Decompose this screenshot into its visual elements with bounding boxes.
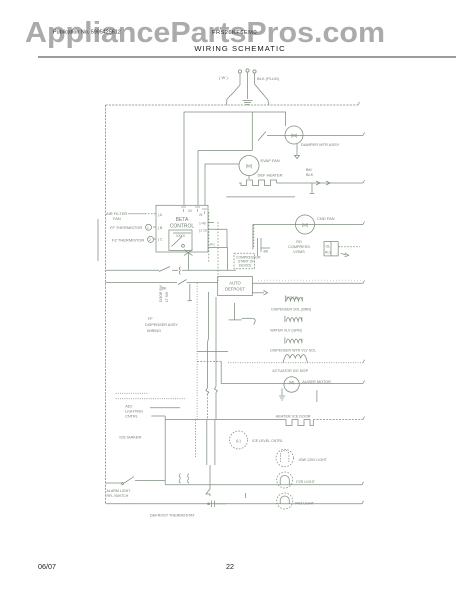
box overload relay OL xyxy=(324,242,338,256)
label beta control xyxy=(170,217,195,230)
wire heater line right xyxy=(277,182,364,184)
wire beta pin right y229 xyxy=(199,229,227,233)
label air filter fan xyxy=(106,211,145,221)
wire rail y282 xyxy=(106,280,218,291)
svg-text:DOOR SW: DOOR SW xyxy=(159,285,163,302)
svg-text:( W ): ( W ) xyxy=(219,75,228,80)
box auto defrost note xyxy=(218,277,253,296)
wire stub left margin xyxy=(97,219,99,261)
svg-text:DAMPER MTR ASSY: DAMPER MTR ASSY xyxy=(301,142,340,147)
wire relay dashed right xyxy=(338,246,360,248)
lamp FF light xyxy=(277,493,293,509)
switch flood light xyxy=(106,477,166,485)
wire drop x252 xyxy=(251,112,253,151)
svg-text:( B: ( B xyxy=(158,226,163,230)
wire rail y283 right xyxy=(252,282,363,284)
svg-text:BLK (PLUG): BLK (PLUG) xyxy=(257,76,280,81)
wire auger stub right xyxy=(316,390,318,402)
resistor defrost heater xyxy=(239,180,277,186)
wire stub x190 xyxy=(188,284,193,301)
coil K2 water valve xyxy=(285,316,302,323)
dotted line adj2 xyxy=(116,398,186,400)
svg-text:FF THERMISTOR: FF THERMISTOR xyxy=(110,225,142,230)
svg-text:21: 21 xyxy=(199,213,203,217)
svg-text:OL: OL xyxy=(326,245,331,249)
svg-text:BLK: BLK xyxy=(306,173,314,177)
svg-text:06/07: 06/07 xyxy=(38,562,56,571)
svg-text:FZ THERMISTOR: FZ THERMISTOR xyxy=(112,237,144,242)
wire dashed rail y361 xyxy=(197,361,221,383)
thermostat defrost on bottom rail xyxy=(208,493,246,507)
control board U1 BETA CONTROL xyxy=(156,205,208,252)
svg-text:(M): (M) xyxy=(246,164,253,169)
svg-text:AUGER MOTOR: AUGER MOTOR xyxy=(302,380,331,384)
svg-text:ICE LEVEL CNTRL: ICE LEVEL CNTRL xyxy=(252,439,283,443)
label compressor windings xyxy=(288,240,310,254)
coil K3 dispenser water valve xyxy=(285,337,302,344)
coil K4 actuator on rail xyxy=(283,355,308,363)
lamp FZ light xyxy=(277,472,293,488)
icemaker box left edge xyxy=(164,416,166,485)
thermistor RT2 FZ xyxy=(112,236,154,242)
wire top rail L1 xyxy=(106,104,359,106)
wire bottom rail xyxy=(106,503,363,505)
svg-text:1-40: 1-40 xyxy=(199,222,206,226)
svg-text:WIRING: WIRING xyxy=(147,329,161,333)
wire heater rail right xyxy=(313,419,363,421)
svg-text:ACTUATOR ICE DISP: ACTUATOR ICE DISP xyxy=(272,369,308,373)
svg-text:FZR LIGHT: FZR LIGHT xyxy=(296,480,315,484)
wire auger rail y383 xyxy=(221,383,363,385)
wire damper line xyxy=(267,135,363,137)
wire left rail xyxy=(105,105,107,504)
wire drop to damper xyxy=(285,112,287,126)
wire beta feed x198 xyxy=(197,151,199,206)
svg-text:RFL SWITCH: RFL SWITCH xyxy=(107,494,129,498)
svg-text:LIGHTING: LIGHTING xyxy=(125,410,143,414)
wire rail y270 xyxy=(106,267,237,275)
svg-text:V.RMS: V.RMS xyxy=(293,250,305,254)
svg-text:RLY: RLY xyxy=(325,251,332,255)
wire sub rail y112 xyxy=(184,112,286,205)
icemaker switch contacts xyxy=(179,474,189,484)
svg-text:ICE MAKER: ICE MAKER xyxy=(119,435,141,440)
header rule xyxy=(38,56,456,58)
svg-text:(M): (M) xyxy=(289,381,295,385)
label FF dispenser assy xyxy=(145,317,178,333)
motor compressor M3 xyxy=(296,215,315,234)
motor damper M1 xyxy=(285,126,303,144)
svg-text:DEF HEATER: DEF HEATER xyxy=(258,173,283,178)
sensor probe T1 xyxy=(229,303,256,325)
svg-text:CND FAN: CND FAN xyxy=(317,216,335,221)
plug prong L xyxy=(238,70,241,85)
icemaker inner vertical1b xyxy=(206,420,208,466)
svg-text:( C: ( C xyxy=(158,237,163,241)
svg-text:DISPENSER ASSY: DISPENSER ASSY xyxy=(145,323,178,327)
wire beta bottom drop xyxy=(184,250,193,271)
door switch vertical labels xyxy=(159,285,169,302)
icemaker inner vertical2 xyxy=(214,420,216,466)
svg-text:DISPENSER SOL (BRN): DISPENSER SOL (BRN) xyxy=(271,308,311,312)
svg-text:DISPENSER WTR VLV SOL: DISPENSER WTR VLV SOL xyxy=(270,349,316,353)
arrow marks heater line xyxy=(316,181,330,185)
coil K1 dispenser solenoid xyxy=(285,296,302,303)
wire damper ground stub xyxy=(295,144,300,159)
svg-text:AUTO: AUTO xyxy=(229,281,241,286)
wire vertical x216 xyxy=(214,297,217,419)
svg-text:BK: BK xyxy=(264,250,269,254)
label BK BLK xyxy=(306,168,314,177)
ground auger xyxy=(279,388,285,400)
wire x227 drop xyxy=(226,229,228,247)
svg-text:ADJ: ADJ xyxy=(125,405,132,409)
wire beta dashed edge xyxy=(208,212,210,262)
svg-text:24: 24 xyxy=(188,209,192,213)
svg-text:EVAP FAN: EVAP FAN xyxy=(261,158,280,163)
icemaker drop wire xyxy=(206,465,210,496)
wire evap to heater xyxy=(248,176,250,180)
switch damper door xyxy=(258,132,266,141)
pin B beta left xyxy=(153,226,163,230)
motor evap fan M2 xyxy=(239,156,259,176)
wire beta pin right y222 xyxy=(199,222,214,226)
icemaker box bottom / FZ light rail xyxy=(165,484,362,486)
svg-text:BETA: BETA xyxy=(176,217,189,223)
wire line y197 xyxy=(226,196,295,198)
svg-text:1: 1 xyxy=(147,226,149,230)
wire vertical x197 xyxy=(196,283,198,419)
wire plug left lead xyxy=(227,85,241,105)
svg-text:DEVICE: DEVICE xyxy=(239,264,252,268)
pin A beta left xyxy=(145,213,163,217)
svg-text:Publication No. 5995425612: Publication No. 5995425612 xyxy=(53,30,121,36)
svg-text:FRZ LIGHT: FRZ LIGHT xyxy=(295,501,314,505)
svg-text:FF: FF xyxy=(148,317,153,321)
ground plug earth symbol xyxy=(243,101,253,105)
plug prong G xyxy=(253,70,256,84)
svg-text:ALARM LIGHT: ALARM LIGHT xyxy=(107,489,132,493)
svg-text:( A: ( A xyxy=(158,213,163,217)
svg-text:RD: RD xyxy=(296,240,302,244)
svg-text:(M): (M) xyxy=(302,223,309,228)
wire junction drop x312 xyxy=(310,183,315,194)
svg-text:FAN: FAN xyxy=(113,216,121,221)
thermistor RT1 FF xyxy=(110,224,152,230)
svg-text:(L): (L) xyxy=(236,439,241,443)
scan artifact dotted companion xyxy=(258,279,361,281)
wire start device drop xyxy=(253,225,255,248)
wire x227 drop2 xyxy=(227,248,229,271)
pin C beta left xyxy=(153,237,163,241)
svg-text:DEFROST: DEFROST xyxy=(225,287,245,292)
arrow relay down xyxy=(341,253,349,257)
svg-text:CONTROL: CONTROL xyxy=(170,224,195,230)
svg-text:HEATER ICE DOOR: HEATER ICE DOOR xyxy=(276,415,311,419)
svg-text:J4 (: J4 ( xyxy=(209,243,216,247)
wire evap feed x205 xyxy=(205,164,239,205)
wire line y150 xyxy=(198,150,252,152)
wire line y351 xyxy=(197,351,228,353)
wire end ticks right edge xyxy=(358,102,365,504)
wire plug right lead xyxy=(255,84,269,105)
label flood light switch xyxy=(107,489,132,498)
wire vertical x208 xyxy=(206,292,209,419)
lamp DL1 dispenser light xyxy=(276,449,293,466)
wire compressor rail y224 xyxy=(253,224,363,226)
wire cap drop x253 xyxy=(252,225,254,250)
wire dotted rail y363 xyxy=(228,362,363,364)
box compressor start device xyxy=(234,253,261,268)
svg-text:LT SW: LT SW xyxy=(165,291,169,302)
resistor ice door heater xyxy=(283,420,313,426)
wire beta pin right y247 xyxy=(208,243,228,248)
svg-text:FRS26KF6EM0: FRS26KF6EM0 xyxy=(212,30,257,36)
ice level sensor dashed circle xyxy=(230,431,248,449)
plug prong N xyxy=(246,69,249,99)
svg-text:WATER VLV (GRN): WATER VLV (GRN) xyxy=(270,328,301,332)
dotted line adj1 xyxy=(116,392,149,394)
relay box inside beta xyxy=(169,230,192,250)
motor auger M4 xyxy=(284,377,299,392)
arrow from defrost box xyxy=(252,291,267,296)
wire adj to box xyxy=(150,408,180,416)
svg-text:COMPRESS: COMPRESS xyxy=(288,245,310,249)
svg-text:(M): (M) xyxy=(291,133,298,138)
svg-text:CNTRL: CNTRL xyxy=(125,415,138,419)
svg-text:DEFROST THERMOSTAT: DEFROST THERMOSTAT xyxy=(150,514,195,518)
svg-text:22: 22 xyxy=(226,562,234,571)
svg-text:2: 2 xyxy=(149,238,151,242)
svg-text:BK/: BK/ xyxy=(306,168,313,172)
svg-text:(1 10: (1 10 xyxy=(199,229,207,233)
icemaker inner vertical dashed xyxy=(195,420,197,458)
label adj lighting cntrl xyxy=(125,405,143,419)
capacitor run cap xyxy=(258,238,271,256)
pin marks beta top xyxy=(181,207,207,217)
wire dashed drop x218 xyxy=(217,222,219,281)
wire ice box top rail y419 xyxy=(165,419,283,421)
svg-text:WIRING SCHEMATIC: WIRING SCHEMATIC xyxy=(194,44,285,53)
svg-text:40W 120V LIGHT: 40W 120V LIGHT xyxy=(299,458,328,462)
